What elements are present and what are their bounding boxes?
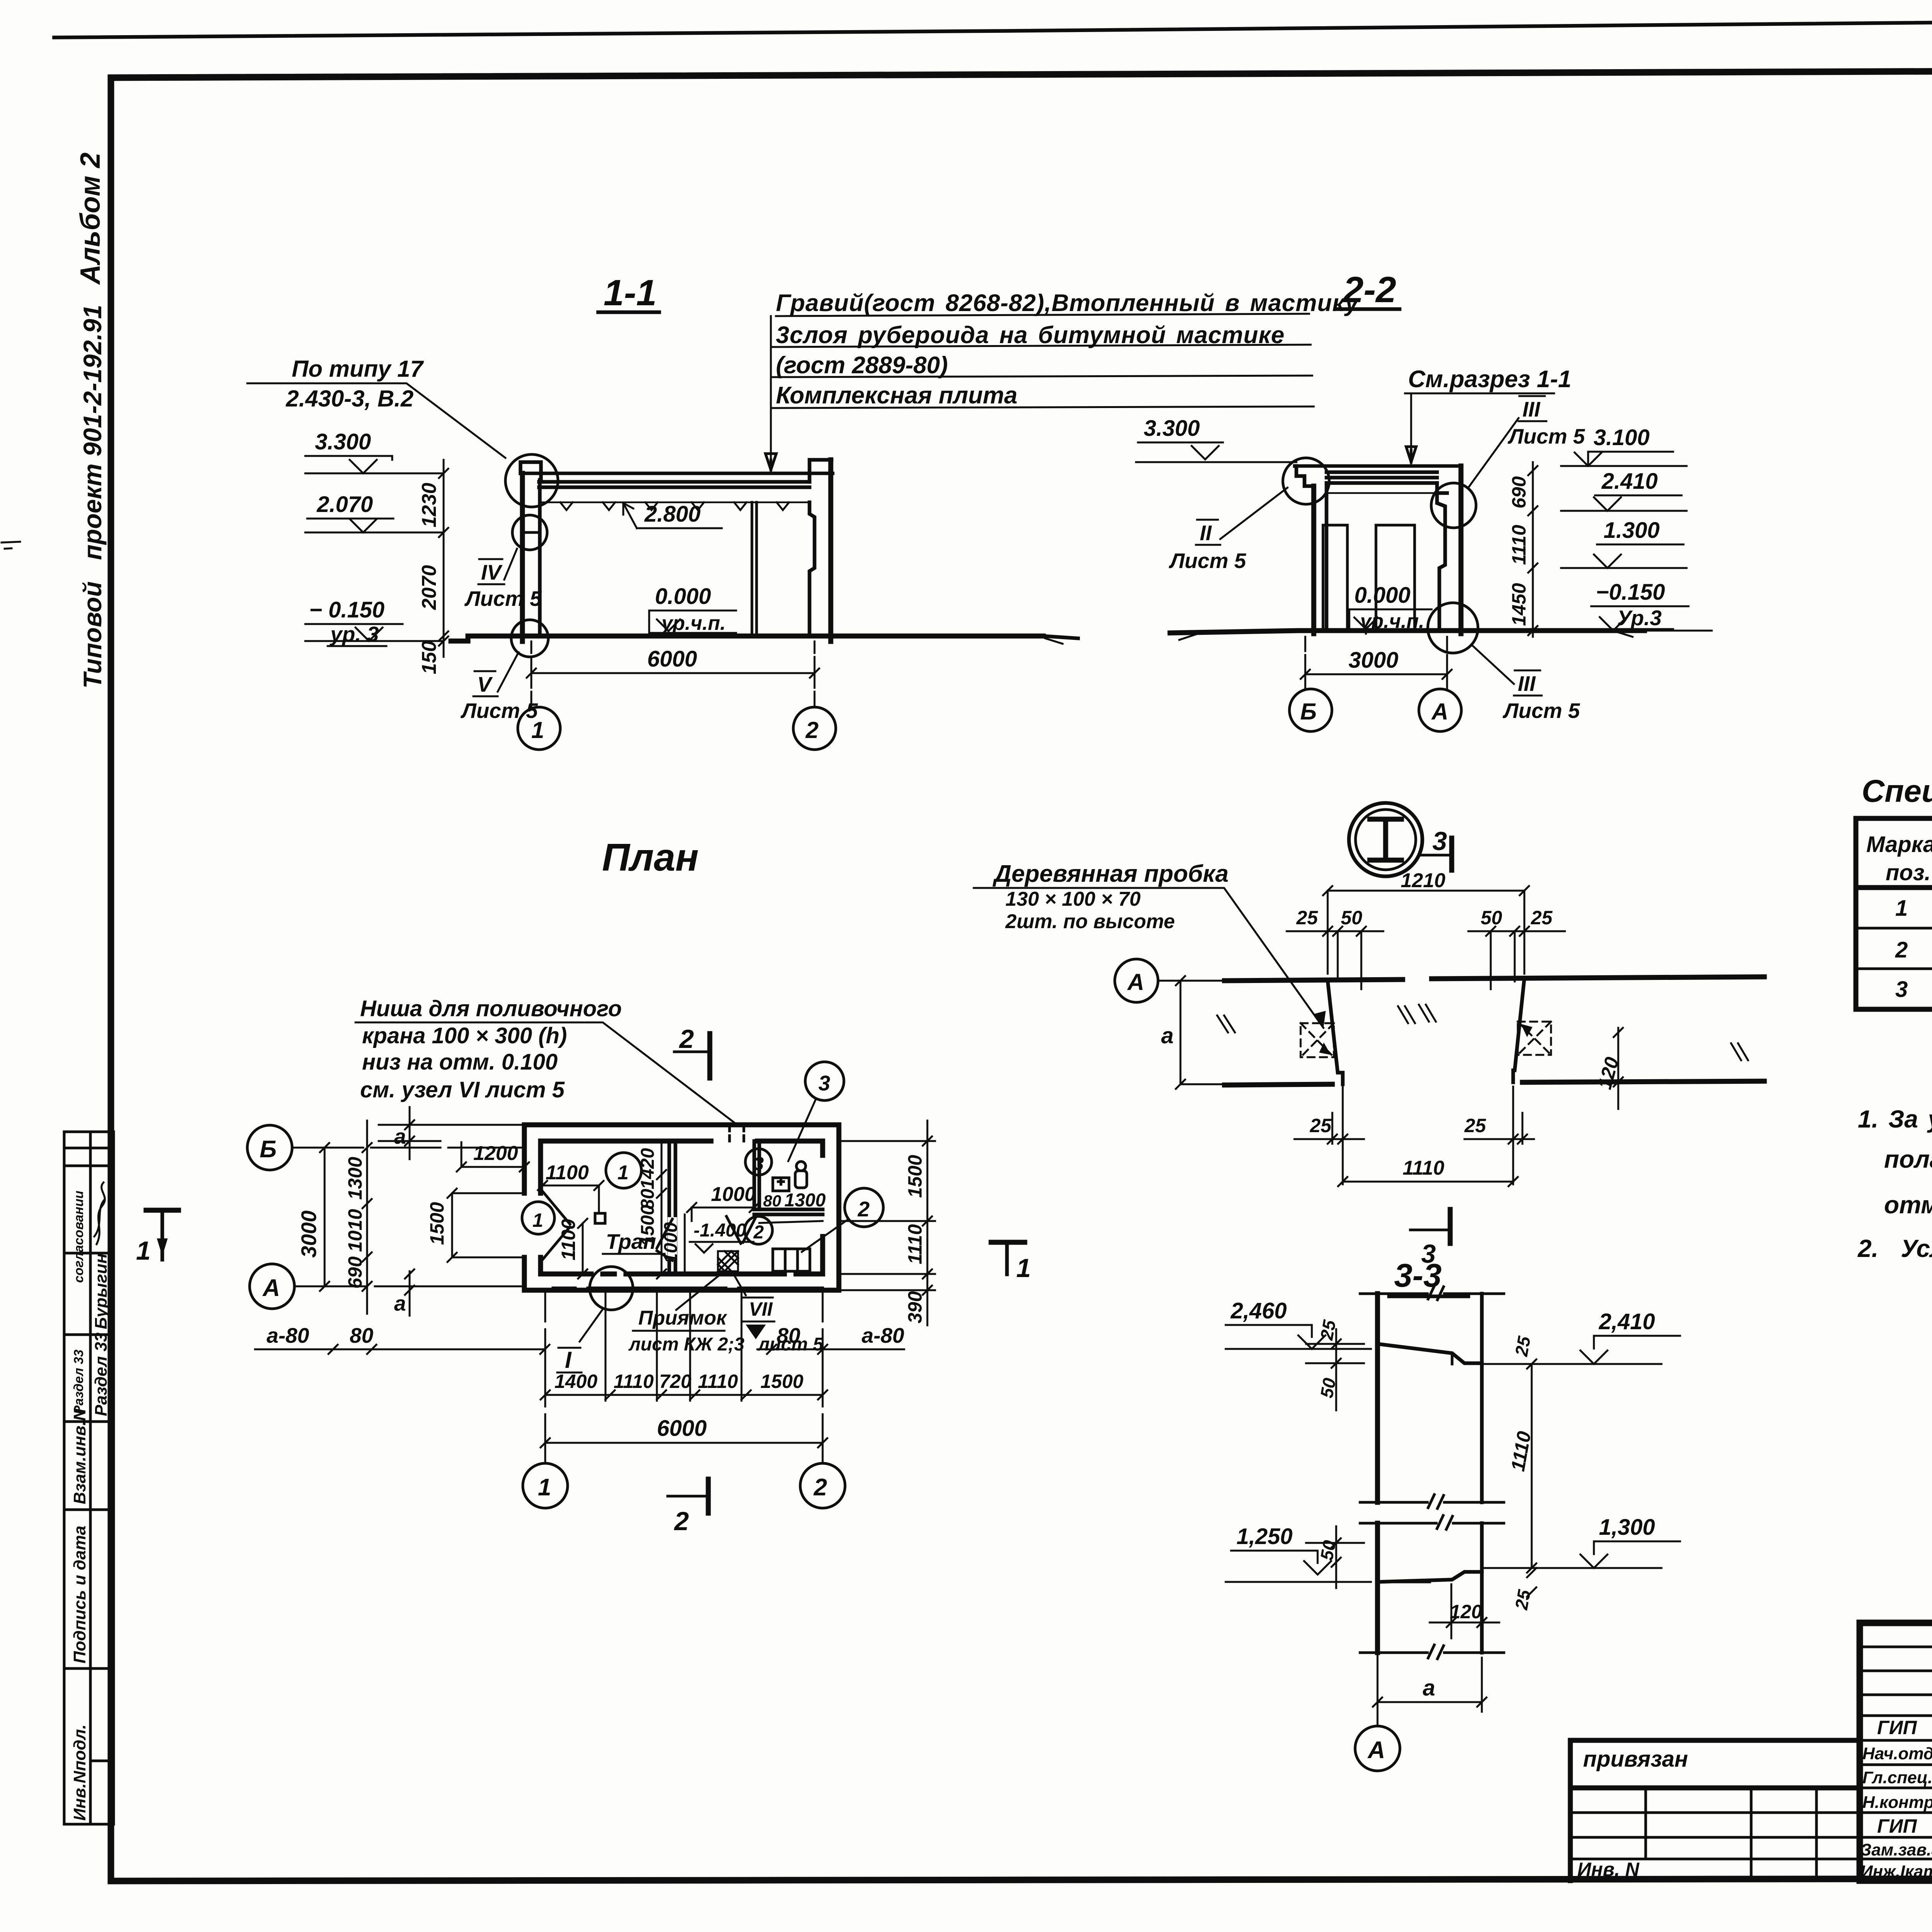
- svg-text:1,250: 1,250: [1236, 1524, 1293, 1549]
- svg-text:Ниша для поливочного: Ниша для поливочного: [360, 996, 622, 1021]
- section mark 3 (top): [1419, 854, 1450, 857]
- svg-text:0.000: 0.000: [655, 584, 711, 609]
- svg-text:Нач.отд.: Нач.отд.: [1862, 1744, 1932, 1763]
- svg-text:25: 25: [1464, 1115, 1486, 1136]
- wall inner face line with opening: [1225, 1081, 1764, 1085]
- svg-text:690: 690: [344, 1256, 366, 1289]
- узел I marker: [1349, 803, 1422, 876]
- interior partition: [752, 502, 757, 636]
- svg-text:Лист 5: Лист 5: [464, 587, 542, 611]
- svg-text:ур.ч.п.: ур.ч.п.: [1359, 610, 1424, 633]
- svg-text:А: А: [1431, 699, 1448, 724]
- section 1-1 roof slab: [520, 473, 833, 502]
- svg-text:a: a: [1161, 1023, 1173, 1048]
- svg-text:1420: 1420: [638, 1148, 658, 1189]
- svg-text:Подпись и дата: Подпись и дата: [70, 1526, 89, 1663]
- door swing at left entrance: [543, 1191, 570, 1260]
- dim a top-left / bottom-left: [379, 1107, 524, 1316]
- door mark circle 1: [522, 1202, 554, 1234]
- svg-text:Альбом 2: Альбом 2: [75, 153, 106, 285]
- svg-text:3: 3: [1895, 977, 1908, 1002]
- sill slope: [1378, 1572, 1482, 1582]
- svg-text:25: 25: [1310, 1115, 1332, 1136]
- left chain 1300/1010/690: [362, 1121, 372, 1314]
- svg-text:IV: IV: [481, 560, 503, 584]
- svg-text:6000: 6000: [657, 1416, 707, 1441]
- partition санузел vertical: [754, 1141, 759, 1209]
- svg-text:отметке: отметке: [1884, 1191, 1932, 1219]
- svg-text:1400: 1400: [554, 1371, 597, 1392]
- left wall 2-2: [1311, 486, 1316, 634]
- partition 1 (between rooms 1 and 2/3): [669, 1141, 675, 1274]
- svg-text:25: 25: [1531, 907, 1553, 929]
- svg-text:Гл.спец.: Гл.спец.: [1862, 1768, 1932, 1787]
- svg-text:1110: 1110: [614, 1371, 654, 1392]
- svg-text:390: 390: [904, 1291, 926, 1323]
- svg-text:2: 2: [813, 1474, 827, 1501]
- detail circle at bottom wall + mark I: [590, 1267, 633, 1310]
- right wall line 3-3: [1480, 1294, 1484, 1653]
- svg-text:25: 25: [1511, 1334, 1534, 1358]
- svg-text:Ур.3: Ур.3: [1617, 606, 1662, 630]
- axis А circle (2-2): [1419, 689, 1461, 731]
- svg-text:а-80: а-80: [862, 1323, 904, 1347]
- svg-text:2.430-3, В.2: 2.430-3, В.2: [286, 386, 413, 412]
- svg-text:2: 2: [673, 1507, 689, 1536]
- svg-text:2: 2: [1895, 937, 1908, 963]
- axis 1 circle: [518, 707, 560, 750]
- svg-text:1450: 1450: [1508, 583, 1530, 626]
- svg-text:1,300: 1,300: [1599, 1515, 1655, 1540]
- svg-text:720: 720: [659, 1371, 692, 1392]
- section mark 3 (bottom): [1410, 1229, 1448, 1231]
- plan outer walls: [524, 1125, 839, 1290]
- svg-text:А: А: [262, 1275, 280, 1301]
- top break line: [1360, 1286, 1504, 1300]
- svg-text:1000: 1000: [711, 1183, 756, 1206]
- detail circle at roof corner: [505, 454, 558, 507]
- right wall 2-2: [1459, 466, 1464, 634]
- svg-text:130 × 100 × 70: 130 × 100 × 70: [1005, 888, 1141, 910]
- wooden plug (dashed) left: [1301, 1023, 1334, 1057]
- svg-text:2: 2: [805, 717, 818, 743]
- svg-text:Инв. N: Инв. N: [1577, 1859, 1639, 1880]
- svg-text:2.800: 2.800: [644, 502, 701, 527]
- room circle 3 with leader: [805, 1062, 844, 1100]
- svg-text:2070: 2070: [418, 565, 440, 610]
- svg-text:Спецификация элементов запол: Спецификация элементов заполнения дверны…: [1862, 774, 1932, 809]
- axis А circle (detail 3): [1115, 959, 1158, 1002]
- svg-text:1.300: 1.300: [1604, 518, 1660, 543]
- svg-text:поз.: поз.: [1886, 860, 1931, 885]
- svg-text:V: V: [477, 672, 493, 696]
- detail circle at right wall base 2-2: [1428, 603, 1478, 653]
- wall break symbols: [1217, 1005, 1748, 1060]
- bottom chain 1400 1110 720 1110 1500: [541, 1390, 827, 1400]
- svg-text:(гост 2889-80): (гост 2889-80): [776, 352, 948, 379]
- section 2-2 roof slab: [1296, 466, 1461, 493]
- svg-text:См.разрез 1-1: См.разрез 1-1: [1408, 366, 1571, 393]
- svg-text:Приямок: Приямок: [638, 1307, 728, 1329]
- door jambs: [1328, 978, 1524, 1084]
- svg-text:2.410: 2.410: [1601, 469, 1658, 494]
- roof ribs: [560, 502, 789, 510]
- привязан block: [1570, 1740, 1860, 1881]
- svg-text:1: 1: [1016, 1253, 1031, 1283]
- wall outer face line: [1225, 977, 1764, 981]
- svg-text:3: 3: [753, 1154, 764, 1174]
- svg-text:2: 2: [857, 1197, 870, 1221]
- svg-text:25: 25: [1296, 907, 1318, 929]
- svg-text:6000: 6000: [647, 646, 697, 672]
- dim 6000 (plan): [541, 1438, 827, 1447]
- right wall section 1-1: [828, 460, 833, 641]
- axis Б circle (plan): [247, 1125, 292, 1170]
- svg-text:3000: 3000: [297, 1210, 321, 1258]
- svg-text:Б: Б: [1300, 699, 1316, 724]
- room circle 1: [606, 1153, 641, 1188]
- svg-text:1110: 1110: [1508, 525, 1530, 565]
- svg-text:1: 1: [617, 1162, 629, 1184]
- section mark 2 (top): [674, 1051, 708, 1053]
- door opening partition 1 (gap): [668, 1217, 677, 1260]
- шкаф bottom right: [773, 1249, 810, 1271]
- svg-text:см. узел VI лист 5: см. узел VI лист 5: [360, 1077, 565, 1102]
- ground line 2-2: [1170, 631, 1645, 633]
- svg-text:3.300: 3.300: [315, 429, 371, 454]
- paper bottom edge line: [62, 1930, 1932, 1932]
- svg-text:80: 80: [350, 1323, 374, 1347]
- detail circle at left roof corner 2-2: [1283, 458, 1329, 504]
- signature scribble in margin: [94, 1182, 105, 1244]
- right dimension chain 2-2: [1528, 462, 1537, 637]
- svg-text:−0.150: −0.150: [1596, 580, 1665, 605]
- svg-text:1110: 1110: [1403, 1157, 1444, 1179]
- svg-text:1: 1: [538, 1474, 551, 1501]
- svg-text:80: 80: [777, 1323, 801, 1347]
- svg-text:1100: 1100: [546, 1162, 589, 1184]
- svg-text:Комплексная плита: Комплексная плита: [776, 382, 1017, 409]
- svg-text:Бурыгин: Бурыгин: [92, 1253, 111, 1329]
- section mark 2 (bottom): [668, 1495, 706, 1498]
- svg-text:II: II: [1200, 521, 1212, 545]
- svg-text:Б: Б: [260, 1136, 277, 1163]
- left wall section 1-1: [520, 473, 525, 641]
- svg-text:Раздел 33: Раздел 33: [92, 1333, 111, 1416]
- svg-text:2,410: 2,410: [1599, 1309, 1655, 1334]
- svg-text:согласовании: согласовании: [71, 1190, 86, 1283]
- left parapet block: [520, 462, 541, 480]
- svg-text:А: А: [1367, 1737, 1385, 1764]
- svg-text:лист КЖ 2;3: лист КЖ 2;3: [628, 1334, 745, 1355]
- vertical dim 3000 (left): [320, 1143, 329, 1291]
- svg-text:1010: 1010: [344, 1209, 366, 1252]
- svg-text:III: III: [1518, 672, 1536, 696]
- svg-text:1: 1: [532, 1209, 543, 1231]
- svg-text:1230: 1230: [418, 483, 440, 527]
- svg-text:Марка,: Марка,: [1866, 832, 1932, 857]
- svg-text:1300: 1300: [784, 1190, 826, 1211]
- svg-text:− 0.150: − 0.150: [309, 597, 384, 622]
- svg-text:привязан: привязан: [1583, 1747, 1688, 1772]
- door swing санузел: [726, 1216, 756, 1243]
- svg-text:1200: 1200: [473, 1142, 518, 1165]
- svg-text:крана 100 × 300 (h): крана 100 × 300 (h): [362, 1023, 567, 1048]
- svg-text:2. Условная отметка уровня: 2. Условная отметка уровня земли принята…: [1857, 1235, 1932, 1262]
- svg-text:a: a: [394, 1124, 406, 1148]
- main штамп outer: [1860, 1623, 1932, 1881]
- svg-text:Зам.зав.гр: Зам.зав.гр: [1861, 1840, 1932, 1859]
- svg-text:Раздел 33: Раздел 33: [71, 1350, 86, 1414]
- svg-text:Типовой проект 901-2-192.91: Типовой проект 901-2-192.91: [78, 305, 107, 689]
- left parapet cap 2-2: [1295, 466, 1312, 486]
- axis Б circle: [1289, 689, 1332, 731]
- svg-text:3.300: 3.300: [1144, 416, 1200, 441]
- svg-text:150: 150: [418, 641, 440, 674]
- svg-text:А: А: [1127, 969, 1144, 995]
- room circle 2 with leader: [845, 1188, 883, 1227]
- paper top edge line: [54, 15, 1932, 37]
- svg-text:ГИП: ГИП: [1877, 1815, 1917, 1837]
- left wall line 3-3: [1375, 1294, 1380, 1653]
- svg-text:ГИП: ГИП: [1877, 1717, 1917, 1738]
- right chain 1500/1110/390: [839, 1121, 935, 1325]
- wooden plug (dashed) right: [1518, 1022, 1551, 1055]
- dimension 3000: [1301, 670, 1452, 679]
- svg-text:a: a: [394, 1291, 406, 1315]
- svg-text:25: 25: [1511, 1588, 1534, 1612]
- svg-text:2шт. по высоте: 2шт. по высоте: [1005, 910, 1175, 933]
- svg-text:1100: 1100: [558, 1219, 579, 1260]
- svg-text:Н.контр.: Н.контр.: [1862, 1793, 1932, 1812]
- axis А circle (plan): [250, 1264, 294, 1309]
- svg-text:1500: 1500: [760, 1371, 803, 1392]
- svg-text:Гравий(гост 8268-82),Втопленны: Гравий(гост 8268-82),Втопленный в мастик…: [776, 290, 1360, 316]
- detail circle IV on wall: [512, 515, 547, 550]
- svg-text:1. За условную отметку 0,0: 1. За условную отметку 0,000 принят уров…: [1858, 1105, 1932, 1133]
- axis 2 circle: [793, 707, 836, 750]
- svg-text:3000: 3000: [1349, 648, 1398, 673]
- svg-text:низ на отм. 0.100: низ на отм. 0.100: [362, 1049, 558, 1075]
- svg-text:Деревянная пробка: Деревянная пробка: [992, 861, 1229, 887]
- svg-text:Лист 5: Лист 5: [1502, 699, 1580, 723]
- left margin stamp boxes: [64, 1132, 114, 1824]
- svg-text:1500: 1500: [426, 1202, 448, 1245]
- svg-text:III: III: [1522, 397, 1541, 421]
- door leafs seen in section: [1323, 525, 1347, 630]
- svg-text:а-80: а-80: [267, 1323, 309, 1347]
- svg-text:0.000: 0.000: [1354, 583, 1410, 608]
- svg-text:1: 1: [531, 717, 544, 743]
- sanитарные приборы: [773, 1178, 789, 1191]
- bottom break line: [1360, 1645, 1504, 1659]
- floor and ground line: [451, 636, 1043, 641]
- svg-text:2: 2: [679, 1024, 694, 1054]
- section mark 1 (right, T1): [991, 1240, 1025, 1245]
- svg-text:1110: 1110: [904, 1224, 926, 1264]
- svg-text:2,460: 2,460: [1230, 1298, 1287, 1323]
- svg-text:1110: 1110: [698, 1371, 738, 1392]
- svg-text:I: I: [565, 1347, 572, 1373]
- middle break lines: [1360, 1495, 1504, 1509]
- svg-text:50: 50: [1481, 907, 1502, 929]
- svg-text:1500: 1500: [638, 1205, 658, 1246]
- трап symbol: [595, 1213, 605, 1223]
- detail circle at right roof corner 2-2: [1431, 483, 1476, 528]
- dimension 6000 (section 1-1): [527, 668, 819, 678]
- svg-text:3.100: 3.100: [1594, 425, 1650, 450]
- svg-text:-1.400: -1.400: [694, 1220, 746, 1241]
- axis 1 circle (plan): [523, 1463, 568, 1508]
- door mark circle 3: [745, 1149, 772, 1175]
- left margin dash mark: [2, 542, 20, 549]
- section mark 1 (left of plan): [146, 1208, 179, 1213]
- svg-text:1-1: 1-1: [604, 272, 656, 313]
- svg-text:80: 80: [763, 1192, 781, 1210]
- left dimension chain: [439, 460, 448, 657]
- svg-text:пола здания, что соответству: пола здания, что соответствует абсолютно…: [1884, 1145, 1932, 1173]
- axis А circle (3-3): [1377, 1655, 1379, 1725]
- svg-text:50: 50: [1341, 907, 1362, 929]
- svg-text:1000: 1000: [661, 1222, 681, 1264]
- svg-text:3: 3: [1432, 827, 1447, 856]
- svg-text:a: a: [1423, 1675, 1435, 1701]
- lintel slope: [1378, 1344, 1482, 1363]
- svg-text:Инж.Iкат.: Инж.Iкат.: [1861, 1862, 1932, 1881]
- svg-text:2.070: 2.070: [316, 492, 373, 517]
- top wall niche (dashed): [730, 1125, 744, 1141]
- svg-text:2-2: 2-2: [1342, 269, 1396, 310]
- svg-text:1300: 1300: [344, 1157, 366, 1200]
- partition санузел horizontal: [754, 1209, 823, 1214]
- svg-text:ур. 3: ур. 3: [329, 622, 379, 646]
- svg-text:1210: 1210: [1401, 869, 1446, 892]
- svg-text:1: 1: [1895, 896, 1908, 921]
- door mark circle 2: [745, 1216, 772, 1244]
- svg-text:План: План: [602, 836, 699, 879]
- svg-text:Лист 5: Лист 5: [1168, 549, 1247, 573]
- svg-text:3: 3: [818, 1071, 830, 1095]
- door swing partition 1: [657, 1219, 672, 1260]
- detail circle V at wall base: [511, 620, 548, 657]
- svg-text:VII: VII: [749, 1298, 773, 1320]
- svg-text:Инв.Nподл.: Инв.Nподл.: [70, 1725, 89, 1821]
- приямок hatch square: [718, 1251, 738, 1271]
- svg-text:Взам.инв.N: Взам.инв.N: [70, 1408, 89, 1504]
- dim a (left vertical): [1176, 976, 1225, 1089]
- svg-text:ур.ч.п.: ур.ч.п.: [660, 612, 726, 634]
- svg-text:690: 690: [1508, 476, 1530, 509]
- svg-text:2: 2: [753, 1222, 764, 1243]
- axis 2 circle (plan): [800, 1463, 845, 1508]
- svg-text:По типу 17: По типу 17: [292, 356, 424, 382]
- svg-text:1: 1: [136, 1236, 151, 1265]
- svg-text:1500: 1500: [904, 1155, 926, 1198]
- leader arrow to roof: [765, 454, 776, 470]
- svg-text:Лист 5: Лист 5: [1507, 424, 1585, 448]
